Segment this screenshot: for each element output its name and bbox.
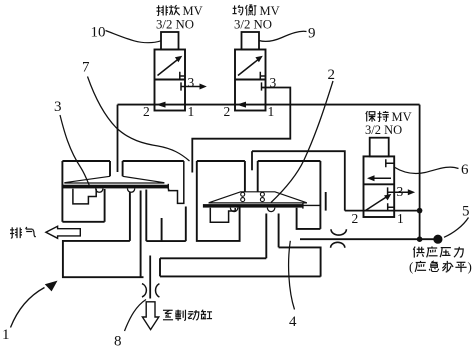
valve6 bottom blocked port T (388, 203, 395, 211)
valve9 blocked port T (260, 72, 265, 80)
valve6 divider (364, 183, 395, 185)
throttle lower arc (331, 242, 345, 248)
valve9 port3 T (261, 82, 263, 90)
right drop pipe (419, 105, 421, 240)
chamber2 right wall (319, 161, 321, 229)
svg-text:6: 6 (461, 162, 469, 178)
supply terminal dot (433, 235, 442, 244)
svg-text:2: 2 (328, 67, 336, 83)
valve6 port3 T and arrow (388, 187, 411, 195)
junction dot supply (417, 236, 423, 242)
leader 8 (125, 300, 147, 332)
leader 2 (271, 81, 333, 203)
svg-text:4: 4 (289, 314, 297, 330)
svg-text:3/2 NO: 3/2 NO (234, 18, 272, 32)
chamber1 bar-end step (169, 161, 184, 203)
valve10 body (155, 50, 186, 111)
chamber2 center channel walls (266, 214, 278, 259)
chamber2 funnel walls (245, 161, 258, 192)
valve10 diagonal arrow (158, 59, 179, 76)
chamber1 seat bump left (96, 189, 103, 193)
chamber2 pocket box C (297, 208, 321, 229)
arrow into valve10 port2 (156, 102, 166, 108)
chamber2 pocket box B (197, 161, 240, 241)
lower-left block (63, 241, 144, 277)
leader 7 (88, 77, 190, 162)
valve9 divider (235, 79, 266, 81)
leader 4 (289, 241, 295, 310)
chamber2 feed pipe (252, 151, 345, 210)
leader 10 (106, 31, 162, 43)
valve6 top blocked T (386, 159, 394, 167)
main pipe (118, 104, 420, 106)
throttle upper arc (331, 229, 346, 235)
chamber2 poppet (210, 208, 235, 223)
svg-text:3: 3 (54, 99, 62, 115)
chamber2 bar thin extension (303, 203, 321, 208)
leader 6 (394, 167, 459, 173)
svg-text:1: 1 (188, 104, 195, 119)
svg-text:9: 9 (308, 26, 316, 42)
text 排气 (10, 227, 22, 238)
valve9 body (235, 50, 266, 111)
brake port flare arcs (142, 284, 159, 298)
text 均衡 MV (valve9) (233, 5, 243, 15)
svg-text:3/2 NO: 3/2 NO (156, 18, 194, 32)
svg-text:3: 3 (270, 75, 277, 90)
chamber2 seat bump left (230, 208, 238, 212)
valve9 port3 pipe (192, 88, 290, 173)
chamber1 outlet channel walls (130, 190, 146, 278)
exhaust hollow arrow (46, 226, 80, 238)
chamber2 diaphragm bar (203, 204, 303, 208)
svg-text:3: 3 (397, 184, 404, 199)
text 排放 MV (valve10) (157, 5, 168, 15)
leader 3 (60, 115, 90, 186)
svg-text:MV: MV (183, 4, 203, 18)
svg-text:3/2 NO: 3/2 NO (365, 123, 402, 137)
leader 1 (11, 288, 45, 328)
text 至制动缸 (163, 310, 173, 320)
junction dot port line (417, 208, 423, 214)
valve10 divider (155, 79, 186, 81)
chamber1 seat box right wall (104, 189, 106, 222)
chamber1 inlet stub pipe (117, 105, 119, 172)
lower-right block (279, 247, 321, 276)
valve6 left flow arrow (372, 177, 391, 179)
valve10 port3 T and arrow (181, 82, 203, 90)
leader 1 arrowhead (45, 281, 58, 292)
chamber1 seat box bottom (62, 221, 104, 223)
chamber2 inlet stub pipe (251, 151, 253, 170)
chamber1 diaphragm trapezoid (64, 176, 164, 183)
svg-text:1: 1 (397, 211, 404, 226)
svg-text:): ) (468, 259, 472, 274)
brake port stub pipe (149, 256, 151, 299)
svg-text:1: 1 (2, 327, 10, 343)
valve10 blocked port T (180, 72, 185, 80)
chamber1 left wall (61, 161, 63, 222)
chamber1 poppet (73, 189, 96, 204)
passage floor under chamber2 (146, 207, 186, 242)
svg-text:2: 2 (224, 104, 231, 119)
svg-text:2: 2 (143, 104, 150, 119)
svg-text:(: ( (409, 259, 413, 274)
chamber2 diaphragm trapezoid (209, 192, 308, 203)
svg-text:5: 5 (462, 204, 470, 220)
leader 9 (259, 31, 307, 41)
svg-text:MV: MV (392, 110, 412, 124)
valve6 port line (345, 210, 420, 212)
leader 5 (444, 218, 469, 238)
valve6 body (364, 156, 395, 217)
valve9 solenoid (242, 32, 260, 50)
chamber top edge segments (62, 160, 320, 162)
svg-text:1: 1 (268, 104, 275, 119)
svg-text:3: 3 (188, 75, 195, 90)
arrow into valve9 port2 (237, 102, 247, 108)
brake port inner walls (160, 258, 321, 276)
svg-text:7: 7 (82, 60, 90, 76)
svg-text:MV: MV (260, 4, 280, 18)
short wall right of chamber2 (325, 192, 327, 211)
valve6 solenoid (370, 138, 389, 157)
valve9 diagonal arrow (238, 59, 259, 76)
text 保持 MV (valve6) (366, 111, 376, 122)
svg-text:8: 8 (114, 334, 122, 348)
chamber1 diaphragm bar (63, 185, 169, 189)
svg-text:2: 2 (352, 211, 359, 226)
chamber2 diaphragm circles (241, 192, 245, 196)
chamber1 funnel walls (110, 161, 123, 176)
valve10 solenoid (161, 32, 179, 50)
chamber1 seat bump right (127, 189, 134, 193)
valve6 diagonal arrow (366, 196, 388, 210)
supply line (300, 238, 438, 240)
brake hollow arrow (142, 302, 158, 330)
text 供应压力 (413, 247, 424, 258)
chamber2 seat bump right (267, 208, 275, 212)
svg-text:10: 10 (91, 25, 106, 41)
